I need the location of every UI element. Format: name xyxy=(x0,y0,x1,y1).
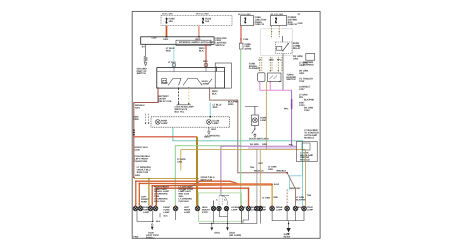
svg-text:RED: RED xyxy=(166,49,171,52)
wire relay coil feed xyxy=(281,36,283,42)
svg-text:LT GRN/ORG: LT GRN/ORG xyxy=(206,135,220,138)
svg-text:BLK: BLK xyxy=(164,214,169,217)
wire headlamp switch to cluster (maroon-red) xyxy=(210,88,288,173)
svg-text:C149: C149 xyxy=(243,38,249,41)
trailer connector green box xyxy=(199,193,242,221)
svg-text:C412: C412 xyxy=(304,109,310,112)
relay switch contact xyxy=(283,44,288,51)
svg-text:15A: 15A xyxy=(169,20,174,23)
turn flasher pins dashed xyxy=(260,57,282,71)
license left feed stub xyxy=(213,201,215,207)
svg-text:LT GRN: LT GRN xyxy=(262,196,270,199)
lighting switch box xyxy=(141,37,214,45)
wire fuse F2 to lighting switch (RED) xyxy=(198,26,200,37)
svg-text:GRY: GRY xyxy=(258,162,263,165)
svg-text:PPL: PPL xyxy=(284,108,289,111)
svg-text:C410 BLK: C410 BLK xyxy=(179,200,190,203)
cyan junction dot xyxy=(210,116,212,118)
wire red horizontal upper xyxy=(134,136,197,138)
connector arrowheads xyxy=(145,123,147,125)
svg-text:S201: S201 xyxy=(135,106,141,109)
license connector bar xyxy=(219,194,229,196)
headlamp switch inner top line xyxy=(157,71,225,73)
wire green main xyxy=(240,49,242,205)
svg-text:ORG: ORG xyxy=(163,38,168,41)
svg-text:SWITCH: SWITCH xyxy=(286,78,295,81)
svg-text:PARK: PARK xyxy=(141,200,147,203)
fuse box 3 xyxy=(240,16,253,26)
svg-text:LAMP: LAMP xyxy=(161,122,168,125)
ground arrow mid xyxy=(210,227,213,230)
orange band thick xyxy=(196,183,272,185)
wire LT BLU to headlamp switch xyxy=(173,46,175,68)
svg-text:INTERIOR LAMPS / AUTOLAMP: INTERIOR LAMPS / AUTOLAMP xyxy=(179,41,214,44)
headlamp switch dimmer sub-box xyxy=(215,63,231,88)
headlamp switch center contact xyxy=(183,78,202,85)
svg-text:DK GRN: DK GRN xyxy=(250,143,259,146)
svg-text:BLK: BLK xyxy=(199,49,204,52)
svg-text:PPL: PPL xyxy=(289,143,294,146)
pin arrowheads xyxy=(259,70,279,72)
svg-text:LAMP: LAMP xyxy=(202,83,209,86)
lamp labels mid group xyxy=(231,206,313,211)
box B1 top right xyxy=(306,54,315,61)
headlamp switch box xyxy=(157,68,225,89)
turn signal flasher box xyxy=(258,73,265,82)
hazard switch contacts xyxy=(270,76,278,80)
wire arc to license xyxy=(222,196,228,206)
ground triangle right xyxy=(286,228,290,232)
headlamp switch pin stubs xyxy=(174,68,217,72)
lamp left rear park xyxy=(270,206,275,211)
annotation above right lamps xyxy=(262,165,277,199)
svg-text:(GRN): (GRN) xyxy=(245,48,252,51)
wire gold stub left xyxy=(180,149,182,170)
dimmer sub-box pin xyxy=(215,66,217,71)
svg-text:LAMP: LAMP xyxy=(163,211,170,214)
svg-text:S411 C410: S411 C410 xyxy=(154,200,166,203)
lamp right stop xyxy=(255,206,260,211)
junction dots bus left xyxy=(135,180,249,189)
ground arrow left xyxy=(151,227,154,230)
wire relay output down xyxy=(282,54,284,91)
svg-text:RED: RED xyxy=(196,38,201,41)
lamp left rear turn xyxy=(173,206,178,211)
wire headlamp switch dash pin yellow xyxy=(188,88,190,104)
svg-text:F150: F150 xyxy=(298,22,304,25)
power distribution dashed box xyxy=(161,15,232,25)
svg-text:FUSE 10: FUSE 10 xyxy=(288,23,298,26)
svg-text:GRN: GRN xyxy=(262,143,267,146)
svg-text:S403: S403 xyxy=(135,174,141,177)
wire pink right xyxy=(269,82,271,91)
wire fuse F1 to lighting switch (ORG) xyxy=(166,26,168,37)
wire cyan U xyxy=(290,176,303,206)
svg-text:ORG: ORG xyxy=(269,58,274,61)
wire orange bus 3 xyxy=(152,185,238,206)
wire purple horizontal xyxy=(221,145,297,147)
cluster lamp 2 xyxy=(207,120,212,125)
wire color blobs mid xyxy=(250,162,312,201)
svg-text:LAMP: LAMP xyxy=(260,208,267,211)
lamp left stop xyxy=(285,206,290,211)
svg-text:LT BLU: LT BLU xyxy=(168,61,176,64)
svg-text:LAMP: LAMP xyxy=(307,208,314,211)
lamp labels left group xyxy=(143,206,211,214)
svg-text:FWD: FWD xyxy=(133,236,138,239)
wire pink left xyxy=(259,81,261,90)
lamp license left xyxy=(211,206,215,210)
svg-text:BLK: BLK xyxy=(156,220,161,223)
svg-text:PPL: PPL xyxy=(299,96,304,99)
lamp left front park/turn B xyxy=(138,206,143,211)
svg-text:LAMP: LAMP xyxy=(184,211,191,214)
svg-text:C411: C411 xyxy=(177,161,183,164)
svg-text:TAN: TAN xyxy=(307,194,312,197)
purple connector blob xyxy=(291,99,293,109)
lamp right rear turn xyxy=(246,206,251,211)
park lamp relay box xyxy=(276,42,292,54)
wire maroon dashed drop xyxy=(286,190,288,206)
svg-text:B/U: B/U xyxy=(298,206,302,209)
svg-text:FUSE 13: FUSE 13 xyxy=(255,23,265,26)
ground wiring mid group xyxy=(199,211,260,227)
wire gold drop from band xyxy=(271,184,273,205)
headlamp switch bottom junctions xyxy=(157,87,210,88)
svg-text:LAMP: LAMP xyxy=(212,122,219,125)
wire teal from cluster xyxy=(173,127,303,176)
svg-text:S400 C407: S400 C407 xyxy=(290,187,302,190)
headlamp dimmer box xyxy=(297,142,318,162)
svg-text:FLASHER: FLASHER xyxy=(249,67,260,70)
lamp labels above left xyxy=(141,185,194,203)
wire headlamp switch dash pin black xyxy=(178,88,180,104)
wire fuse F3 down (RED) xyxy=(240,26,242,44)
svg-text:S410: S410 xyxy=(274,183,280,186)
fusible link symbol xyxy=(239,43,243,49)
svg-text:RED: RED xyxy=(203,60,208,63)
dome lamp feed stub xyxy=(245,105,258,107)
svg-text:STOP: STOP xyxy=(202,211,208,214)
svg-text:RED: RED xyxy=(274,196,279,199)
wire gold left branch xyxy=(134,178,198,180)
instrument cluster dashed box xyxy=(151,117,230,127)
wire headlamp switch to border (maroon) xyxy=(134,88,158,177)
lamp right front park/turn A xyxy=(148,206,153,211)
svg-text:SWITCH: SWITCH xyxy=(215,44,224,47)
svg-text:S404 C410: S404 C410 xyxy=(201,179,213,182)
wire gold thick down xyxy=(196,137,198,206)
right margin labels column xyxy=(299,61,315,111)
maroon connector ticks xyxy=(133,130,135,136)
wire gold drop pair2 xyxy=(148,179,150,206)
ground arrow under resistor xyxy=(144,63,147,66)
wire green branch left xyxy=(175,146,240,206)
power distribution box outline (faint) xyxy=(261,29,293,56)
dimmer inner box xyxy=(302,143,310,150)
wire maroon diagonal xyxy=(287,173,295,206)
svg-text:C150: C150 xyxy=(135,148,141,151)
wire cyan to instrument cluster xyxy=(209,103,211,117)
red wire connector arrow xyxy=(240,39,242,41)
lamp right rear park xyxy=(239,206,244,211)
lighting switch inner box xyxy=(176,40,211,45)
svg-text:C290: C290 xyxy=(133,118,139,121)
fuse box 4 xyxy=(270,16,286,26)
svg-text:S402 C410: S402 C410 xyxy=(137,171,149,174)
hazard switch box xyxy=(268,73,282,82)
dome lamp bulb xyxy=(253,118,258,123)
wire purple license drop xyxy=(220,146,222,195)
wire B+ down xyxy=(145,44,147,56)
svg-text:RED/BLK: RED/BLK xyxy=(277,169,287,172)
svg-text:ORG: ORG xyxy=(299,64,304,67)
relay coil xyxy=(277,46,282,50)
svg-text:TOW: TOW xyxy=(299,80,305,83)
fuse F1 xyxy=(166,18,167,23)
lamp right stop B xyxy=(258,206,263,211)
svg-text:FUSE: FUSE xyxy=(169,18,176,21)
wire pink bus xyxy=(260,89,292,91)
svg-text:15A: 15A xyxy=(205,20,210,23)
switch top entry ticks xyxy=(166,36,168,37)
cluster lamp 1 xyxy=(155,120,160,125)
lamp right front park/turn B xyxy=(153,206,158,211)
svg-text:FUSE: FUSE xyxy=(205,18,212,21)
wire orange bus 4 xyxy=(156,188,248,205)
svg-text:LAMP: LAMP xyxy=(231,208,238,211)
border frame xyxy=(132,11,320,238)
license dashes xyxy=(219,196,222,205)
svg-text:BLK/PNK: BLK/PNK xyxy=(296,198,306,201)
wire purple horizontal 2 xyxy=(248,147,297,149)
svg-text:RED: RED xyxy=(213,106,218,109)
svg-text:S230: S230 xyxy=(228,103,234,106)
svg-text:BLK/PNK: BLK/PNK xyxy=(304,98,315,101)
wire orange bus 1 xyxy=(136,181,238,205)
svg-text:BLK YEL: BLK YEL xyxy=(175,110,185,113)
wire grey drop mid xyxy=(256,149,258,205)
annotation diagonal pointer xyxy=(181,180,204,192)
wire tan drop right xyxy=(305,149,307,205)
wire orange bus 2 xyxy=(139,183,238,205)
fuse F4 xyxy=(275,18,276,23)
svg-text:PARK: PARK xyxy=(162,82,168,85)
headlamp switch wiper linkage xyxy=(168,78,181,85)
wire tan mid xyxy=(265,82,267,150)
svg-text:SWITCH: SWITCH xyxy=(137,72,146,75)
svg-text:C269: C269 xyxy=(152,37,158,40)
fuse F2 xyxy=(202,18,203,23)
lamp trailer xyxy=(302,206,307,211)
svg-text:ORG: ORG xyxy=(268,168,273,171)
svg-text:REAR: REAR xyxy=(284,236,291,239)
svg-text:PANEL): PANEL) xyxy=(146,236,155,239)
svg-text:RELAY COIL: RELAY COIL xyxy=(158,100,172,103)
pin terminal boxes xyxy=(172,64,207,66)
ground wiring right group xyxy=(272,211,304,224)
svg-text:PPL: PPL xyxy=(277,58,282,61)
svg-text:PARK/TURN: PARK/TURN xyxy=(135,160,148,163)
connector dashes C290 xyxy=(146,114,149,125)
lamp top junction dots xyxy=(135,205,273,206)
svg-text:C407: C407 xyxy=(299,88,305,91)
wire purple down xyxy=(291,90,293,146)
cluster ground arrow xyxy=(208,132,211,135)
dome lamp box xyxy=(252,115,259,126)
ground arrow mid2 xyxy=(226,227,229,230)
dome lamp switch xyxy=(254,126,256,129)
svg-text:(RR LAMP): (RR LAMP) xyxy=(229,234,241,237)
wire tan drop mid xyxy=(259,149,261,205)
svg-text:BLK: BLK xyxy=(211,128,216,131)
dome switch ground arrow xyxy=(254,135,257,138)
headlamp switch contact OFF xyxy=(162,79,167,84)
svg-text:LAMP: LAMP xyxy=(143,211,150,214)
svg-text:ORG: ORG xyxy=(299,72,304,75)
lamp backup xyxy=(293,206,298,211)
resistor (illumination) xyxy=(144,56,147,62)
wire gold horizontal xyxy=(181,148,306,150)
ground wiring left group xyxy=(137,211,176,222)
fuse F3 xyxy=(245,18,246,23)
svg-text:ORG: ORG xyxy=(293,57,298,60)
purple connector tick xyxy=(291,105,293,107)
lamp license right xyxy=(224,206,228,210)
lamp license mid xyxy=(217,206,221,210)
wire fuse F4 pin dash B xyxy=(278,26,280,39)
svg-text:G401: G401 xyxy=(214,231,220,234)
svg-text:TAN: TAN xyxy=(250,166,255,169)
svg-text:BLK: BLK xyxy=(212,92,217,95)
svg-text:RED/BLK: RED/BLK xyxy=(254,169,264,172)
wire cluster ground stub xyxy=(208,127,210,131)
headlamp switch connector bar xyxy=(177,104,191,106)
lamp high mount stop xyxy=(195,206,200,211)
wire RED to headlamp switch xyxy=(205,44,207,67)
svg-text:MODULE: MODULE xyxy=(304,136,314,139)
lamp left front park/turn A xyxy=(133,206,138,211)
wire fuse F4 pin dash A xyxy=(271,26,273,39)
